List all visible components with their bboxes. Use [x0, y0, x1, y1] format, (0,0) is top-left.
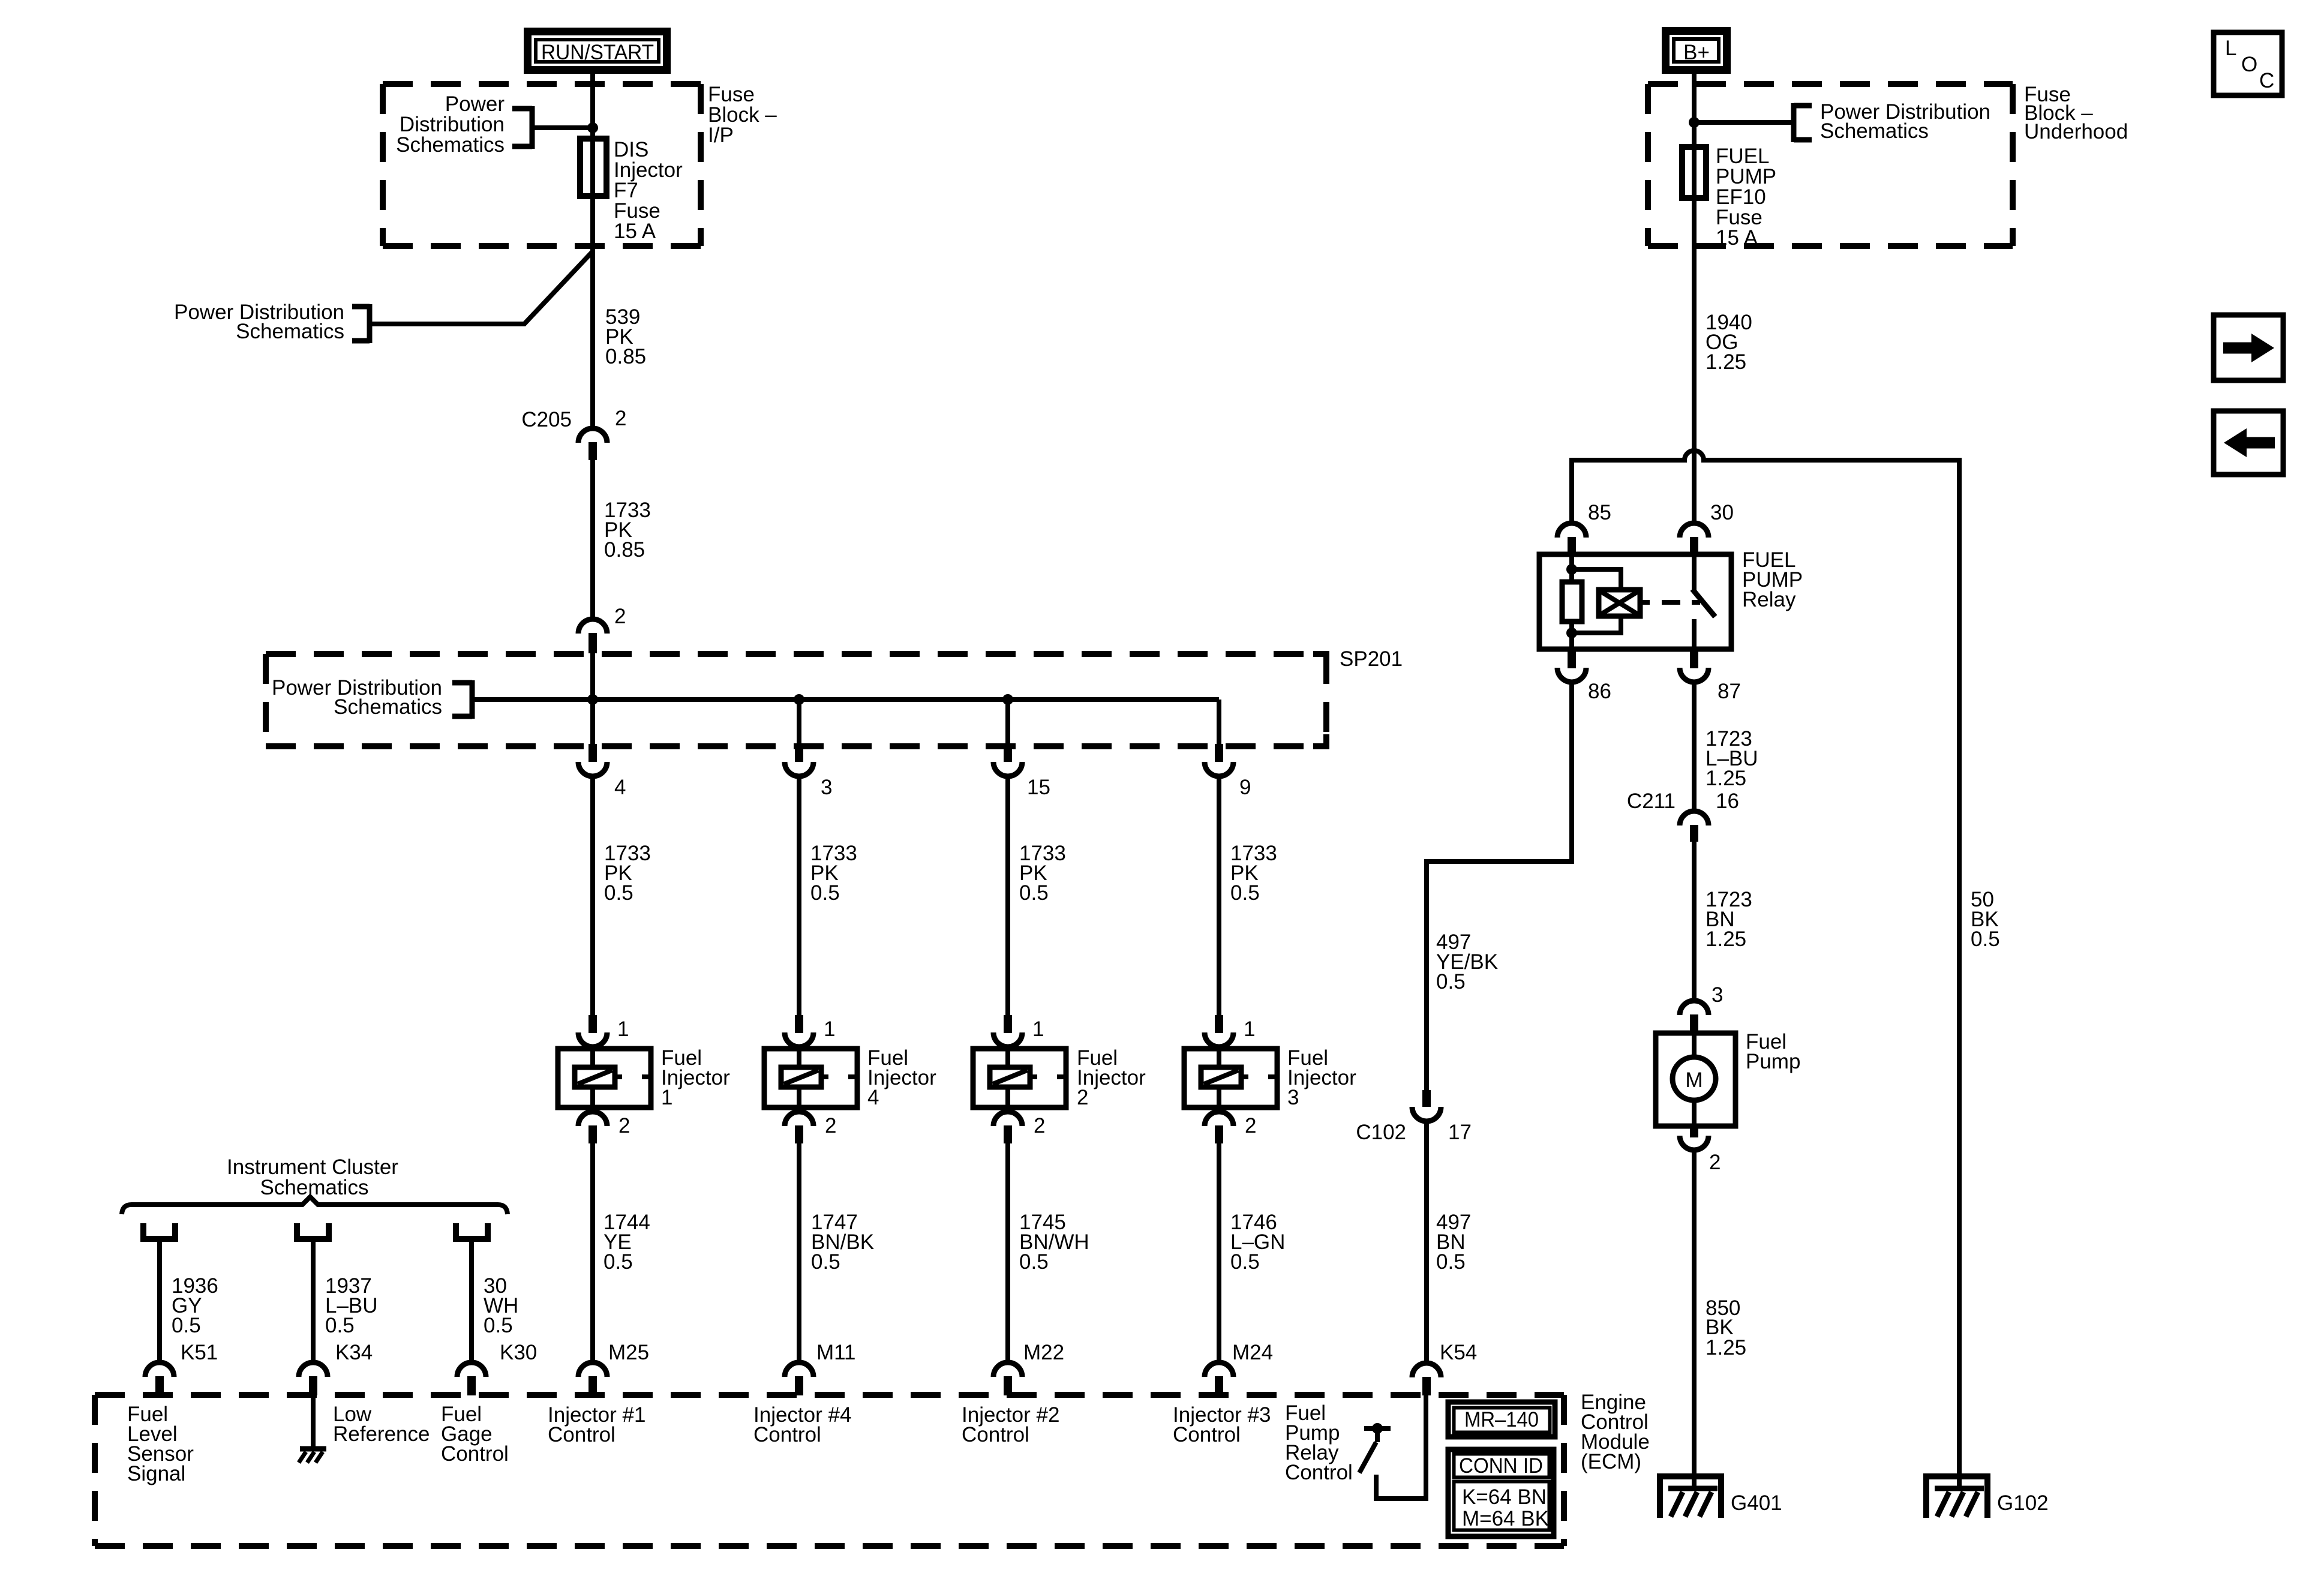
svg-text:30: 30 [1710, 501, 1734, 524]
wire coil loop bottom [1572, 616, 1621, 633]
bracket SP201 schematics [452, 680, 472, 719]
ground G102 [1923, 1473, 1990, 1518]
svg-text:0.5: 0.5 [1019, 881, 1049, 905]
bracket to Power Distribution Schematics (right) [1794, 103, 1812, 142]
svg-text:Schematics: Schematics [334, 695, 442, 719]
svg-text:15 A: 15 A [614, 220, 656, 243]
wire branch 2 stub [797, 700, 801, 745]
label box CONN ID [1448, 1449, 1554, 1536]
svg-text:Schematics: Schematics [1820, 119, 1929, 143]
wire stub to K30 [469, 1242, 474, 1362]
svg-text:85: 85 [1588, 501, 1611, 524]
label wire 1733 PK 0.85 [604, 499, 651, 562]
svg-text:4: 4 [614, 776, 626, 799]
svg-text:1: 1 [661, 1086, 672, 1109]
label Power Distribution Schematics (lower left) [174, 301, 344, 343]
label Fuel Injector 2 [1077, 1046, 1146, 1109]
svg-text:87: 87 [1718, 680, 1741, 703]
wire junction to bracket [1694, 120, 1794, 125]
connector pin 3 (SP201 out) [785, 744, 813, 776]
label Injector #4 Control [753, 1403, 851, 1446]
label wire 1733 PK 0.5 (inj3) [1230, 842, 1277, 905]
svg-text:2: 2 [618, 1114, 630, 1137]
node junction B+ feed [1689, 117, 1700, 128]
svg-text:2: 2 [615, 407, 626, 430]
resistor relay coil shunt [1562, 582, 1582, 622]
node splice junction 3 [1002, 694, 1013, 705]
svg-text:K34: K34 [335, 1341, 373, 1364]
node junction on RUN/START feed [587, 122, 598, 133]
wire fuel pump to G401 [1692, 1152, 1697, 1490]
svg-text:1.25: 1.25 [1706, 1336, 1746, 1359]
svg-text:2: 2 [1709, 1151, 1721, 1174]
wire injector 4 to ECM M11 [797, 1142, 801, 1362]
svg-text:4: 4 [867, 1086, 879, 1109]
wire fuse to C205 [590, 196, 595, 428]
svg-text:Pump: Pump [1746, 1050, 1800, 1073]
svg-text:0.5: 0.5 [811, 1250, 840, 1274]
label wire 1733 PK 0.5 (inj4) [810, 842, 857, 905]
wire branch to G102 [1957, 460, 1962, 1490]
label Fuel Pump [1746, 1030, 1800, 1073]
connector pin 1 injector 4 [785, 1015, 813, 1047]
svg-text:B+: B+ [1683, 41, 1710, 64]
svg-text:MR–140: MR–140 [1464, 1408, 1539, 1431]
svg-text:O: O [2241, 53, 2257, 76]
switch fuel pump relay driver (ECM) [1359, 1423, 1391, 1473]
splice block SP201 dashed box [266, 654, 1329, 749]
svg-text:2: 2 [825, 1114, 836, 1137]
wire injector 3 to ECM M24 [1217, 1142, 1221, 1362]
motor fuel pump [1656, 1032, 1736, 1126]
label DIS Injector F7 Fuse 15 A [614, 138, 683, 243]
icon LOC box [2214, 32, 2282, 95]
wire relay coil top [1569, 554, 1574, 583]
label wire 539 PK 0.85 [605, 305, 646, 368]
fuel injector 2 [973, 1049, 1066, 1107]
bracket to Power Distribution Schematics [512, 106, 532, 149]
label Engine Control Module (ECM) [1581, 1391, 1650, 1473]
pin 3 fuel pump [1680, 1001, 1709, 1032]
svg-text:(ECM): (ECM) [1581, 1450, 1641, 1473]
svg-text:1: 1 [1244, 1017, 1255, 1041]
ground G401 [1657, 1473, 1724, 1518]
wire feed through SP201 [590, 653, 595, 745]
wire pin 86 to C102 [1427, 684, 1572, 1091]
connector C211 pin 16 [1680, 811, 1709, 842]
fuse EF10 FUEL PUMP 15 A [1682, 147, 1706, 198]
label Fuse Block - Underhood [2024, 83, 2128, 143]
svg-text:M24: M24 [1232, 1341, 1273, 1364]
svg-text:M25: M25 [608, 1341, 649, 1364]
label wire 1733 PK 0.5 (inj1) [604, 842, 651, 905]
pin 87 relay [1680, 652, 1709, 682]
svg-text:Control: Control [548, 1423, 615, 1446]
pin 86 relay [1557, 652, 1586, 682]
svg-text:0.5: 0.5 [1230, 881, 1260, 905]
svg-text:2: 2 [1034, 1114, 1045, 1137]
svg-text:1: 1 [824, 1017, 835, 1041]
wire branch with hop over B+ feed [1569, 451, 1962, 460]
svg-text:0.5: 0.5 [1436, 970, 1466, 993]
label wire 497 BN 0.5 [1436, 1211, 1471, 1274]
svg-text:Signal: Signal [127, 1462, 185, 1485]
pin K34 (ECM) [299, 1362, 328, 1395]
label FUEL PUMP EF10 Fuse 15 A [1716, 145, 1776, 250]
label Low Reference [333, 1403, 430, 1446]
svg-text:C: C [2259, 69, 2274, 92]
wire coil loop top [1572, 569, 1621, 591]
label wire 30 WH 0.5 [484, 1274, 518, 1337]
svg-text:G102: G102 [1997, 1491, 2049, 1515]
wire stub to K34 [311, 1242, 316, 1362]
svg-text:Control: Control [441, 1442, 509, 1466]
label Power Distribution Schematics (right) [1820, 100, 1990, 143]
svg-text:2: 2 [1077, 1086, 1088, 1109]
svg-text:Schematics: Schematics [260, 1176, 369, 1199]
linkage dashes coil to contact [1640, 600, 1700, 605]
svg-text:M=64 BK: M=64 BK [1462, 1507, 1549, 1530]
pin M25 (ECM) [578, 1362, 607, 1395]
svg-text:0.5: 0.5 [1019, 1250, 1049, 1274]
node coil junction top [1566, 564, 1577, 575]
ground internal (low reference) [299, 1449, 326, 1463]
switch relay contact [1692, 554, 1715, 649]
label Fuel Injector 1 [661, 1046, 730, 1109]
component stub fuel level sensor signal [140, 1223, 178, 1239]
wire SP201 to injector 3 [1217, 777, 1221, 1016]
label wire 1733 PK 0.5 (inj2) [1019, 842, 1066, 905]
svg-text:K30: K30 [500, 1341, 537, 1364]
power symbol B+ [1666, 31, 1727, 70]
wire K54 to driver switch [1376, 1395, 1426, 1499]
node splice junction 2 [794, 694, 804, 705]
svg-text:86: 86 [1588, 680, 1611, 703]
connector pin 2 injector 2 [993, 1112, 1022, 1143]
label Fuse Block - I/P [708, 83, 777, 147]
icon arrow right box [2214, 315, 2283, 380]
label Fuel Injector 4 [867, 1046, 936, 1109]
svg-text:K54: K54 [1440, 1341, 1477, 1364]
connector pin 2 into SP201 [578, 619, 607, 653]
svg-text:Relay: Relay [1742, 588, 1796, 611]
brace instrument cluster [122, 1197, 508, 1214]
svg-text:M: M [1685, 1068, 1703, 1092]
connector C102 pin 17 [1412, 1090, 1441, 1121]
wire SP201 to injector 4 [797, 777, 801, 1016]
label wire 1723 BN 1.25 [1706, 888, 1752, 951]
svg-text:C205: C205 [521, 408, 572, 431]
svg-text:0.5: 0.5 [1971, 927, 2000, 951]
svg-text:1: 1 [1032, 1017, 1044, 1041]
connector pin 1 injector 2 [993, 1015, 1022, 1047]
label wire 1723 L-BU 1.25 [1706, 727, 1758, 790]
label Fuel Injector 3 [1287, 1046, 1356, 1109]
wire injector 1 to ECM M25 [590, 1142, 595, 1362]
svg-text:Control: Control [1173, 1423, 1241, 1446]
svg-text:3: 3 [1287, 1086, 1299, 1109]
pin 30 relay [1680, 523, 1709, 554]
wire K34 to internal ground [311, 1395, 316, 1449]
label wire 1940 OG 1.25 [1706, 311, 1752, 374]
svg-text:0.5: 0.5 [172, 1314, 201, 1337]
pin 85 relay [1557, 523, 1586, 554]
svg-text:RUN/START: RUN/START [541, 41, 654, 64]
svg-text:0.5: 0.5 [604, 881, 633, 905]
wire stub to K51 [157, 1242, 162, 1362]
pin K30 (ECM) [457, 1362, 486, 1395]
svg-text:9: 9 [1239, 776, 1251, 799]
svg-text:1.25: 1.25 [1706, 927, 1746, 951]
connector pin 1 injector 1 [578, 1015, 607, 1047]
label Injector #3 Control [1173, 1403, 1271, 1446]
fuel injector 4 [764, 1049, 857, 1107]
svg-text:3: 3 [821, 776, 832, 799]
wire pin 87 to C211 [1692, 684, 1697, 810]
svg-text:CONN ID: CONN ID [1459, 1454, 1543, 1478]
wire bracket to node [534, 125, 593, 130]
svg-text:G401: G401 [1731, 1491, 1782, 1515]
fuel injector 1 [558, 1049, 651, 1107]
pin K51 (ECM) [145, 1362, 174, 1395]
pin M24 (ECM) [1205, 1362, 1233, 1395]
label wire 1747 BN/BK 0.5 [811, 1211, 874, 1274]
connector pin 9 (SP201 out) [1205, 744, 1233, 776]
svg-text:0.85: 0.85 [605, 345, 646, 368]
wire splice bus SP201 [474, 700, 1219, 745]
svg-text:L: L [2225, 37, 2236, 60]
pin 2 fuel pump [1680, 1125, 1709, 1150]
svg-text:Control: Control [753, 1423, 821, 1446]
svg-text:0.5: 0.5 [603, 1250, 633, 1274]
fuse block underhood dashed box [1648, 84, 2013, 246]
connector pin 2 injector 1 [578, 1112, 607, 1143]
label wire 1746 L-GN 0.5 [1230, 1211, 1285, 1274]
svg-text:16: 16 [1716, 789, 1739, 813]
label Injector #2 Control [962, 1403, 1059, 1446]
label wire 497 YE/BK 0.5 [1436, 930, 1498, 993]
svg-text:0.85: 0.85 [604, 538, 645, 562]
label Fuel Level Sensor Signal [127, 1403, 194, 1485]
label FUEL PUMP Relay [1742, 548, 1803, 611]
svg-text:I/P: I/P [708, 124, 734, 147]
pin K54 (ECM) [1412, 1363, 1441, 1395]
wire SP201 to injector 2 [1005, 777, 1010, 1016]
coil relay winding [1599, 590, 1640, 616]
svg-text:K=64 BN: K=64 BN [1462, 1485, 1547, 1509]
connector C205 pin 2 [578, 428, 607, 460]
svg-text:SP201: SP201 [1340, 647, 1403, 671]
svg-text:2: 2 [614, 605, 626, 628]
svg-text:Schematics: Schematics [396, 133, 505, 157]
wire C205 to SP201 pin 2 [590, 459, 595, 619]
wire branch to relay pin 85 [1569, 460, 1574, 523]
svg-text:1.25: 1.25 [1706, 767, 1746, 790]
svg-text:0.5: 0.5 [1230, 1250, 1260, 1274]
component stub low reference [294, 1223, 332, 1239]
bracket lower Power Distribution Schematics [352, 304, 370, 343]
svg-text:Schematics: Schematics [236, 320, 344, 343]
label Power Distribution Schematics (fuse block) [396, 92, 505, 157]
label Fuel Pump Relay Control [1285, 1401, 1353, 1484]
wire B+ down to fuse EF10 [1692, 70, 1697, 149]
connector pin 15 (SP201 out) [993, 744, 1022, 776]
svg-text:17: 17 [1448, 1121, 1472, 1144]
wire RUN/START down to fuse F7 [590, 70, 595, 140]
svg-text:K51: K51 [181, 1341, 218, 1364]
label Power Distribution Schematics (SP201) [272, 676, 442, 719]
fuse F7 DIS Injector 15 A [580, 139, 606, 196]
ECM dashed box [95, 1395, 1564, 1546]
label Fuel Gage Control [441, 1403, 509, 1466]
label wire 1936 GY 0.5 [172, 1274, 218, 1337]
pin M22 (ECM) [993, 1362, 1022, 1395]
power symbol RUN/START [528, 32, 667, 70]
label Injector #1 Control [548, 1403, 645, 1446]
svg-text:M11: M11 [816, 1341, 856, 1364]
svg-text:2: 2 [1245, 1114, 1256, 1137]
connector pin 2 injector 4 [785, 1112, 813, 1143]
svg-text:1: 1 [617, 1017, 629, 1041]
svg-text:15: 15 [1027, 776, 1050, 799]
label box MR-140 [1448, 1402, 1555, 1437]
svg-text:3: 3 [1712, 983, 1723, 1007]
label wire 850 BK 1.25 [1706, 1296, 1746, 1359]
wire C211 to fuel pump pin 3 [1692, 842, 1697, 1000]
svg-text:Control: Control [962, 1423, 1029, 1446]
svg-text:0.5: 0.5 [810, 881, 840, 905]
svg-text:0.5: 0.5 [484, 1314, 513, 1337]
node splice junction 1 [587, 694, 598, 705]
wire fuse EF10 down to relay pin 30 [1692, 198, 1697, 523]
wire branch 3 stub [1005, 700, 1010, 745]
connector pin 2 injector 3 [1205, 1112, 1233, 1143]
wire injector 2 to ECM M22 [1005, 1142, 1010, 1362]
fuel injector 3 [1184, 1049, 1277, 1107]
relay FUEL PUMP box [1539, 554, 1731, 649]
label wire 1937 L-BU 0.5 [325, 1274, 378, 1337]
svg-text:0.5: 0.5 [325, 1314, 355, 1337]
wire SP201 to injector 1 [590, 777, 595, 1016]
label wire 1744 YE 0.5 [603, 1211, 650, 1274]
fuse block I/P dashed box [383, 84, 701, 246]
label wire 50 BK 0.5 [1971, 888, 2000, 951]
svg-text:1.25: 1.25 [1706, 350, 1746, 374]
wire C102 to K54 [1424, 1123, 1429, 1363]
wire diagonal tap to schematics [371, 251, 593, 325]
node coil junction bottom [1566, 628, 1577, 638]
label Instrument Cluster Schematics [227, 1155, 398, 1199]
pin M11 (ECM) [785, 1362, 813, 1395]
svg-text:Underhood: Underhood [2024, 120, 2128, 143]
component stub fuel gage control [453, 1223, 491, 1239]
connector pin 1 injector 3 [1205, 1015, 1233, 1047]
svg-text:Reference: Reference [333, 1422, 430, 1446]
svg-text:M22: M22 [1023, 1341, 1064, 1364]
svg-text:C102: C102 [1356, 1121, 1406, 1144]
wire resistor to bottom node [1569, 622, 1574, 649]
svg-text:Control: Control [1285, 1461, 1353, 1484]
connector pin 4 (SP201 out) [578, 744, 607, 776]
icon arrow left box [2214, 411, 2283, 475]
svg-text:0.5: 0.5 [1436, 1250, 1466, 1274]
label wire 1745 BN/WH 0.5 [1019, 1211, 1089, 1274]
svg-text:15 A: 15 A [1716, 226, 1758, 250]
svg-text:C211: C211 [1627, 789, 1676, 813]
